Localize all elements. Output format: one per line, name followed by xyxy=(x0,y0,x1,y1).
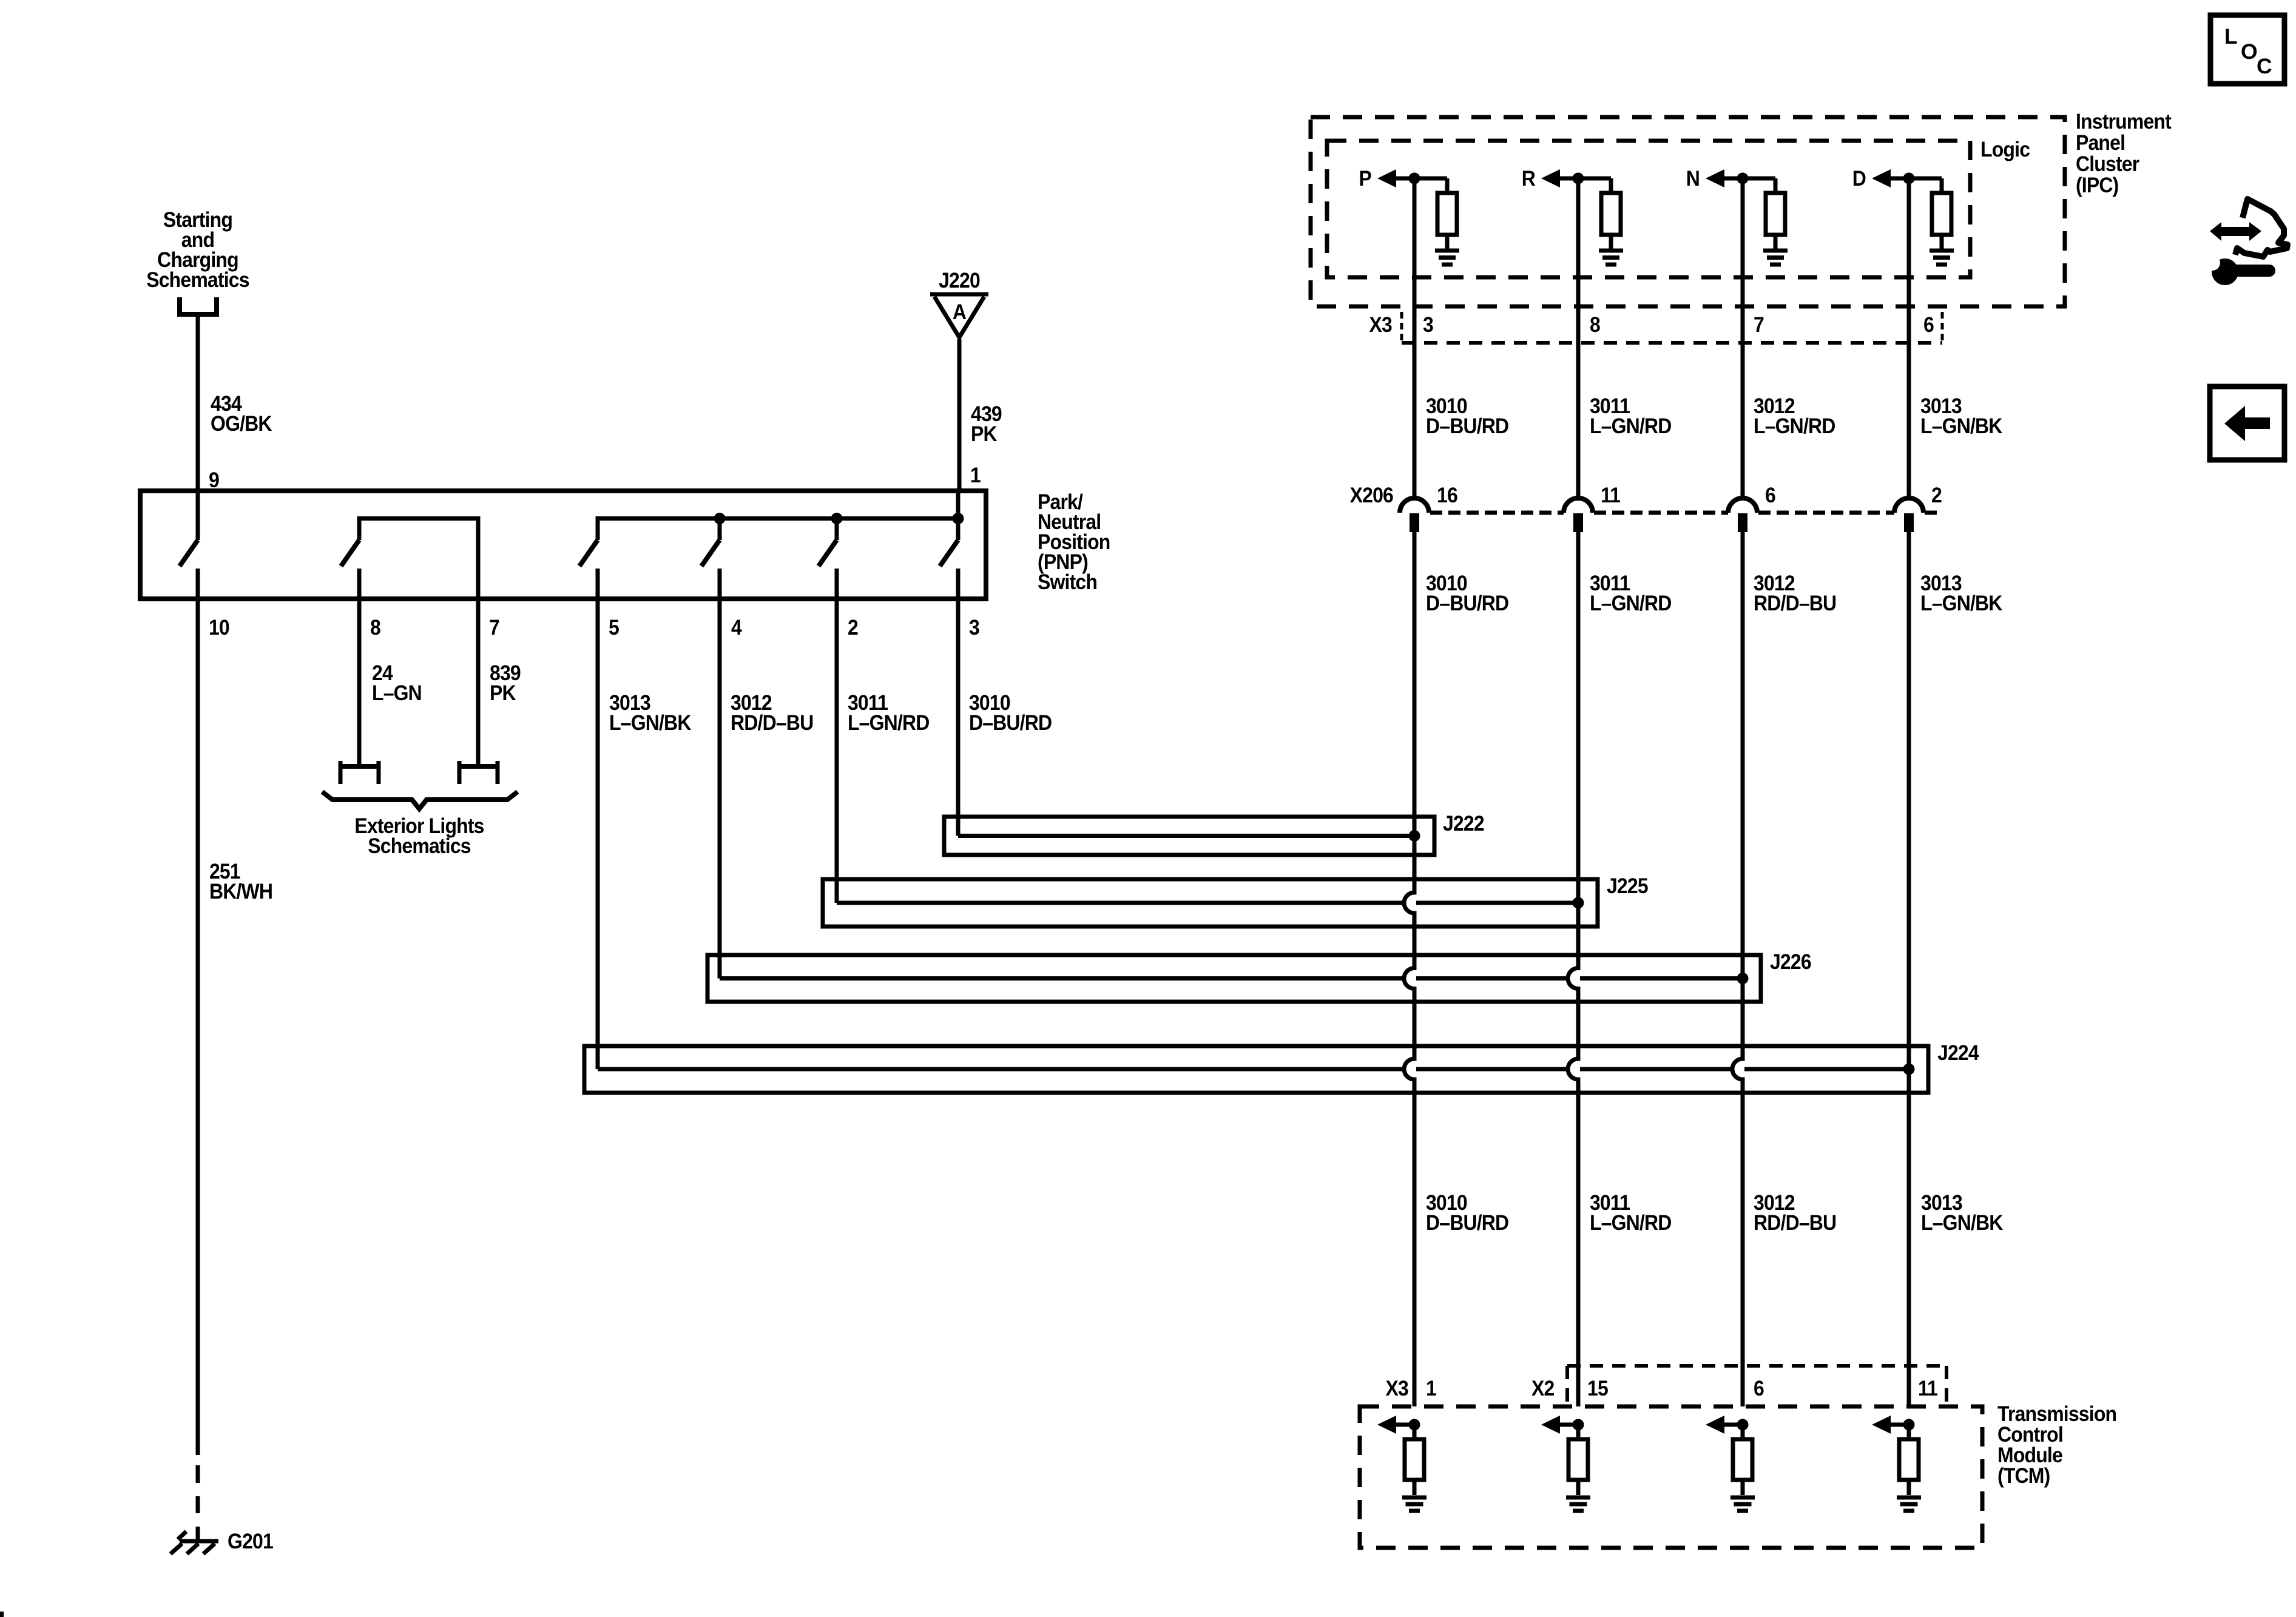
node: Starting and Charging Schematics off-page reference label xyxy=(146,208,249,292)
junction dot TCM input 11/X2 xyxy=(1903,1419,1915,1431)
svg-text:R: R xyxy=(1522,166,1536,191)
svg-text:J225: J225 xyxy=(1607,874,1648,898)
junction dot bus at pin 1 wire xyxy=(953,513,964,524)
wire label 3010 D-BU/RD (IPC side) xyxy=(1426,394,1508,438)
wire: resistor to ground TCM 6/X2 xyxy=(1741,1480,1745,1495)
svg-text:5: 5 xyxy=(609,615,619,640)
wire: J225 inner run to R column xyxy=(837,901,1578,905)
ground TCM 15/X2 xyxy=(1566,1497,1590,1511)
twisted-wire sleeve J224 xyxy=(584,1046,1928,1093)
svg-text:A: A xyxy=(953,300,967,324)
svg-text:L: L xyxy=(2224,24,2237,49)
svg-text:1: 1 xyxy=(1426,1376,1436,1400)
connector X206 dotted line xyxy=(1430,511,1564,515)
svg-text:P: P xyxy=(1359,166,1371,191)
svg-text:D: D xyxy=(1852,166,1866,191)
ground TCM 11/X2 xyxy=(1897,1497,1921,1511)
wire label 3010 D-BU/RD (harness) xyxy=(1426,571,1508,615)
svg-text:J220: J220 xyxy=(939,268,980,292)
svg-text:L–GN/BK: L–GN/BK xyxy=(1920,414,2003,438)
connector X2 label (TCM) xyxy=(1531,1376,1555,1400)
wire label 3011 L-GN/RD (pin 2) xyxy=(848,690,930,735)
resistor TCM 6/X2 xyxy=(1733,1439,1752,1480)
svg-text:11: 11 xyxy=(1601,483,1620,507)
pin 3 label xyxy=(969,615,979,640)
IPC indicator letter N xyxy=(1686,166,1700,191)
connector X206 dotted line xyxy=(1594,511,1728,515)
IPC arrow to R xyxy=(1541,169,1579,187)
wire: pin 7 through-wire inside box xyxy=(476,516,481,599)
svg-text:3: 3 xyxy=(1423,312,1433,337)
wire label 3012 RD/D-BU (pin 4) xyxy=(731,690,813,735)
Logic label xyxy=(1980,137,2030,161)
wire label 24 L-GN xyxy=(372,661,422,705)
TCM X2 pin 6 label xyxy=(1754,1376,1764,1400)
connector X206 terminal arc at 11 xyxy=(1564,498,1593,532)
IPC arrow to D xyxy=(1872,169,1909,187)
switch contact S1 (pins 9-10) xyxy=(180,491,198,599)
Instrument Panel Cluster (IPC) name label xyxy=(2076,109,2172,197)
X3 pin 8 label xyxy=(1590,312,1600,337)
ground IPC D branch xyxy=(1930,251,1954,265)
junction dot J225 at 3011 wire xyxy=(1573,897,1584,909)
wire: circuit 3013 D column X206 to TCM xyxy=(1907,532,1911,1406)
twisted-wire sleeve J225 xyxy=(823,879,1598,927)
wire label 3013 L-GN/BK (IPC side) xyxy=(1920,394,2003,438)
svg-text:O: O xyxy=(2241,39,2257,64)
junction dot TCM input 15/X2 xyxy=(1573,1419,1584,1431)
off-page connector bracket (pin 7 wire) xyxy=(458,761,499,784)
resistor IPC R branch xyxy=(1601,193,1621,235)
junction dot bus at pin 2 column xyxy=(831,513,843,524)
switch contact S2 (pin 8) xyxy=(341,516,359,599)
wire label 3012 L-GN/RD (IPC side) xyxy=(1754,394,1835,438)
switch bus bar (pins 5,4,2,3 common) xyxy=(598,516,958,521)
twisted-wire sleeve J222 xyxy=(944,817,1434,855)
connector X3 label (TCM) xyxy=(1386,1376,1409,1400)
wire: resistor to ground IPC P xyxy=(1445,235,1450,249)
switch contact S6 (pin 3) xyxy=(940,491,958,599)
svg-text:L–GN/BK: L–GN/BK xyxy=(609,711,692,735)
IPC indicator letter R xyxy=(1522,166,1536,191)
IPC indicator letter P xyxy=(1359,166,1371,191)
splice sleeve label J222 xyxy=(1443,811,1484,836)
wire: circuit 251 from pin 10 to ground xyxy=(196,599,200,1455)
svg-text:(IPC): (IPC) xyxy=(2076,173,2118,197)
Transmission Control Module dashed box xyxy=(1360,1406,1982,1548)
wire: TCM 1/X3 to resistor xyxy=(1413,1425,1417,1439)
wire label 251 BK/WH xyxy=(209,859,272,903)
svg-text:X206: X206 xyxy=(1350,483,1393,507)
svg-text:N: N xyxy=(1686,166,1700,191)
wire: dashed portion of circuit 251 xyxy=(196,1465,200,1541)
TCM input arrow 1/X3 xyxy=(1377,1416,1415,1434)
pin 10 label xyxy=(209,615,229,640)
wire: resistor to ground TCM 1/X3 xyxy=(1413,1480,1417,1495)
pin 7 label xyxy=(489,615,499,640)
ground IPC R branch xyxy=(1599,251,1623,265)
svg-text:7: 7 xyxy=(1754,312,1764,337)
svg-text:Panel: Panel xyxy=(2076,130,2125,155)
svg-text:6: 6 xyxy=(1923,312,1934,337)
splice J220 label xyxy=(939,268,980,292)
connector X206 terminal arc at 6 xyxy=(1728,498,1757,532)
node: Exterior Lights Schematics reference label xyxy=(354,814,484,858)
svg-text:RD/D–BU: RD/D–BU xyxy=(731,711,813,735)
svg-text:2: 2 xyxy=(1931,483,1942,507)
page icon LOC box xyxy=(2210,15,2284,84)
tool navigation icon (double arrow) xyxy=(2210,222,2261,241)
ground IPC P branch xyxy=(1435,251,1459,265)
off-page connector bracket (Starting and Charging) xyxy=(180,297,217,314)
svg-text:RD/D–BU: RD/D–BU xyxy=(1754,1210,1836,1235)
IPC arrow to N xyxy=(1706,169,1743,187)
TCM input arrow 11/X2 xyxy=(1872,1416,1909,1434)
wire: IPC P branch to resistor xyxy=(1414,178,1447,193)
wire: circuit 3011 from pin 2 into J225 xyxy=(835,599,839,903)
wire label 3011 L-GN/RD (IPC side) xyxy=(1590,394,1672,438)
junction dot TCM input 1/X3 xyxy=(1409,1419,1420,1431)
connector X206 dotted line tail xyxy=(1925,511,1942,515)
connector X206 label xyxy=(1350,483,1393,507)
brace to Exterior Lights Schematics xyxy=(322,792,518,809)
X206 pin 16 label xyxy=(1437,483,1457,507)
back arrow icon box xyxy=(2210,387,2284,460)
X3 pin 7 label xyxy=(1754,312,1764,337)
switch contact S5 (pin 2) xyxy=(819,519,837,599)
wire label 3013 L-GN/BK (lower) xyxy=(1921,1190,2004,1235)
svg-text:D–BU/RD: D–BU/RD xyxy=(1426,591,1508,615)
wire label 3013 L-GN/BK (harness) xyxy=(1920,571,2003,615)
TCM X2 pin 15 label xyxy=(1587,1376,1608,1400)
wire label 3010 D-BU/RD (pin 3) xyxy=(969,690,1052,735)
wire: circuit 3011 R column X206 to TCM xyxy=(1568,532,1578,1406)
svg-text:G201: G201 xyxy=(228,1529,273,1553)
wire: TCM 11/X2 to resistor xyxy=(1907,1425,1911,1439)
svg-text:16: 16 xyxy=(1437,483,1457,507)
wire label 3010 D-BU/RD (lower) xyxy=(1426,1190,1508,1235)
svg-text:7: 7 xyxy=(489,615,499,640)
svg-text:J226: J226 xyxy=(1770,950,1811,974)
TCM X3 pin 1 label xyxy=(1426,1376,1436,1400)
svg-text:OG/BK: OG/BK xyxy=(211,411,272,436)
tool navigation icon (wrench) xyxy=(2204,255,2269,285)
wire: circuit 3010 P column X206 to TCM xyxy=(1404,532,1414,1406)
X206 pin 11 label xyxy=(1601,483,1620,507)
wire: IPC R branch to resistor xyxy=(1578,178,1611,193)
svg-text:L–GN/RD: L–GN/RD xyxy=(1590,1210,1672,1235)
PNP Switch name label xyxy=(1038,490,1110,594)
wire label 3013 L-GN/BK (pin 5) xyxy=(609,690,692,735)
svg-text:Instrument: Instrument xyxy=(2076,109,2172,133)
pin 8 label xyxy=(370,615,380,640)
wire label 3011 L-GN/RD (lower) xyxy=(1590,1190,1672,1235)
svg-text:X3: X3 xyxy=(1386,1376,1409,1400)
splice sleeve label J225 xyxy=(1607,874,1648,898)
wire: IPC D output down to X206 xyxy=(1907,178,1911,498)
svg-text:2: 2 xyxy=(848,615,858,640)
svg-text:D–BU/RD: D–BU/RD xyxy=(969,711,1052,735)
wire: IPC R output down to X206 xyxy=(1576,178,1581,498)
svg-text:BK/WH: BK/WH xyxy=(209,879,272,903)
connector cavity letter A xyxy=(953,300,967,324)
X3 pin 6 label xyxy=(1923,312,1934,337)
TCM input arrow 6/X2 xyxy=(1706,1416,1743,1434)
svg-text:X2: X2 xyxy=(1531,1376,1555,1400)
svg-text:L–GN: L–GN xyxy=(372,681,422,705)
splice sleeve label J226 xyxy=(1770,950,1811,974)
svg-text:D–BU/RD: D–BU/RD xyxy=(1426,414,1508,438)
wire: IPC N output down to X206 xyxy=(1741,178,1745,498)
resistor IPC P branch xyxy=(1437,193,1457,235)
svg-text:J224: J224 xyxy=(1937,1041,1979,1065)
ground IPC N branch xyxy=(1763,251,1788,265)
resistor TCM 11/X2 xyxy=(1899,1439,1919,1480)
resistor IPC N branch xyxy=(1766,193,1785,235)
connector X3 dotted bottom line xyxy=(1402,341,1942,345)
svg-text:PK: PK xyxy=(971,422,998,446)
svg-text:8: 8 xyxy=(370,615,380,640)
svg-text:RD/D–BU: RD/D–BU xyxy=(1754,591,1836,615)
svg-text:L–GN/RD: L–GN/RD xyxy=(1590,414,1672,438)
pin 2 label xyxy=(848,615,858,640)
junction dot bus at pin 4 column xyxy=(714,513,726,524)
Instrument Panel Cluster outer dashed box xyxy=(1311,117,2065,306)
junction dot J222 at 3010 wire xyxy=(1409,830,1420,842)
wire: resistor to ground TCM 15/X2 xyxy=(1576,1480,1581,1495)
IPC arrow to P xyxy=(1377,169,1415,187)
svg-text:Schematics: Schematics xyxy=(368,834,471,858)
wire: resistor to ground IPC D xyxy=(1940,235,1944,249)
connector X2 dotted outline xyxy=(1567,1366,1947,1405)
resistor TCM 15/X2 xyxy=(1568,1439,1588,1480)
IPC indicator letter D xyxy=(1852,166,1866,191)
wire: circuit 3010 from pin 3 into J222 xyxy=(956,599,961,836)
splice sleeve label J224 xyxy=(1937,1041,1979,1065)
wire label 3011 L-GN/RD (harness) xyxy=(1590,571,1672,615)
connector X3 label (IPC) xyxy=(1369,312,1393,337)
connector X206 terminal arc at 16 xyxy=(1400,498,1429,532)
wire: TCM 6/X2 to resistor xyxy=(1741,1425,1745,1439)
X206 pin 6 label xyxy=(1765,483,1775,507)
wire: resistor to ground IPC N xyxy=(1774,235,1778,249)
connector X3 dashed separator left xyxy=(1400,312,1403,342)
connector X3 dashed separator right xyxy=(1941,312,1944,342)
wire label 3012 RD/D-BU (harness) xyxy=(1754,571,1836,615)
svg-text:3: 3 xyxy=(969,615,979,640)
svg-text:L–GN/RD: L–GN/RD xyxy=(1754,414,1835,438)
wire: IPC N branch to resistor xyxy=(1743,178,1775,193)
svg-text:Schematics: Schematics xyxy=(146,268,249,292)
resistor IPC D branch xyxy=(1932,193,1951,235)
junction dot IPC N branch xyxy=(1737,173,1749,184)
wire: IPC D branch to resistor xyxy=(1909,178,1942,193)
svg-text:Logic: Logic xyxy=(1980,137,2030,161)
svg-text:L–GN/BK: L–GN/BK xyxy=(1920,591,2003,615)
svg-text:1: 1 xyxy=(970,463,981,487)
svg-text:J222: J222 xyxy=(1443,811,1484,836)
wire: J222 inner run to P column xyxy=(958,834,1414,838)
svg-text:Cluster: Cluster xyxy=(2076,152,2139,176)
pin 5 label xyxy=(609,615,619,640)
X206 pin 2 label xyxy=(1931,483,1942,507)
in-line connector triangle J220 xyxy=(930,294,988,337)
junction dot J226 at 3012 wire xyxy=(1737,973,1749,984)
svg-text:8: 8 xyxy=(1590,312,1600,337)
X3 pin 3 label xyxy=(1423,312,1433,337)
switch contact S4 (pin 4) xyxy=(701,519,720,599)
svg-text:6: 6 xyxy=(1754,1376,1764,1400)
ground G201 symbol xyxy=(171,1531,218,1554)
junction dot TCM input 6/X2 xyxy=(1737,1419,1749,1431)
off-page connector bracket (pin 8 wire) xyxy=(339,761,380,784)
wire label 839 PK xyxy=(490,661,521,705)
resistor TCM 1/X3 xyxy=(1405,1439,1424,1480)
wire: resistor to ground TCM 11/X2 xyxy=(1907,1480,1911,1495)
IPC Logic inner dashed box xyxy=(1327,141,1970,277)
wire: J226 inner run to N column xyxy=(720,976,1743,981)
wire label 439 PK xyxy=(971,402,1002,446)
svg-text:PK: PK xyxy=(490,681,516,705)
svg-text:10: 10 xyxy=(209,615,229,640)
TCM input arrow 15/X2 xyxy=(1541,1416,1579,1434)
wire: circuit 3012 N column X206 to TCM xyxy=(1732,532,1743,1406)
svg-text:15: 15 xyxy=(1587,1376,1608,1400)
junction dot J224 at 3013 wire xyxy=(1903,1064,1915,1075)
junction dot IPC P branch xyxy=(1409,173,1420,184)
tool navigation icon (zigzag outline) xyxy=(2235,199,2288,257)
pin 1 label xyxy=(970,463,981,487)
wire: TCM 15/X2 to resistor xyxy=(1576,1425,1581,1439)
ground TCM 6/X2 xyxy=(1730,1497,1755,1511)
svg-text:4: 4 xyxy=(731,615,742,640)
svg-text:L–GN/BK: L–GN/BK xyxy=(1921,1210,2004,1235)
pin 9 label xyxy=(209,468,219,492)
switch S2 top bar (pin 8 to pin 7) xyxy=(359,516,478,521)
wire: circuit 3012 from pin 4 into J226 xyxy=(718,599,722,979)
wire: circuit 3013 from pin 5 into J224 xyxy=(596,599,600,1069)
svg-text:D–BU/RD: D–BU/RD xyxy=(1426,1210,1508,1235)
twisted-wire sleeve J226 xyxy=(707,955,1761,1002)
wire: circuit 24 from pin 8 xyxy=(357,599,362,764)
Park/Neutral Position (PNP) Switch box xyxy=(140,491,986,599)
junction dot IPC R branch xyxy=(1573,173,1584,184)
svg-text:C: C xyxy=(2257,54,2272,78)
svg-text:6: 6 xyxy=(1765,483,1775,507)
wire: circuit 439 from J220 to PNP pin 1 xyxy=(957,339,962,491)
wire: circuit 839 from pin 7 xyxy=(476,599,481,764)
wire: J224 inner run to D column xyxy=(598,1067,1909,1072)
wire label 434 OG/BK xyxy=(211,391,272,436)
ground G201 label xyxy=(228,1529,273,1553)
wire label 3012 RD/D-BU (lower) xyxy=(1754,1190,1836,1235)
switch contact S3 (pin 5) xyxy=(579,516,598,599)
svg-text:11: 11 xyxy=(1918,1376,1937,1400)
Transmission Control Module (TCM) name label xyxy=(1997,1402,2116,1488)
connector X206 terminal arc at 2 xyxy=(1894,498,1923,532)
svg-text:(TCM): (TCM) xyxy=(1997,1463,2050,1488)
ground TCM 1/X3 xyxy=(1402,1497,1427,1511)
wire: resistor to ground IPC R xyxy=(1609,235,1613,249)
TCM X2 pin 11 label xyxy=(1918,1376,1937,1400)
svg-text:L–GN/RD: L–GN/RD xyxy=(1590,591,1672,615)
wire: circuit 434 from Starting/Charging to PNP pin 9 xyxy=(196,317,200,491)
page corner printing artifact dot xyxy=(0,1612,4,1617)
wire: IPC P output down to X206 xyxy=(1413,178,1417,498)
svg-text:L–GN/RD: L–GN/RD xyxy=(848,711,930,735)
pin 4 label xyxy=(731,615,742,640)
connector X206 dotted line xyxy=(1758,511,1894,515)
svg-text:Switch: Switch xyxy=(1038,570,1097,594)
svg-text:X3: X3 xyxy=(1369,312,1393,337)
junction dot IPC D branch xyxy=(1903,173,1915,184)
